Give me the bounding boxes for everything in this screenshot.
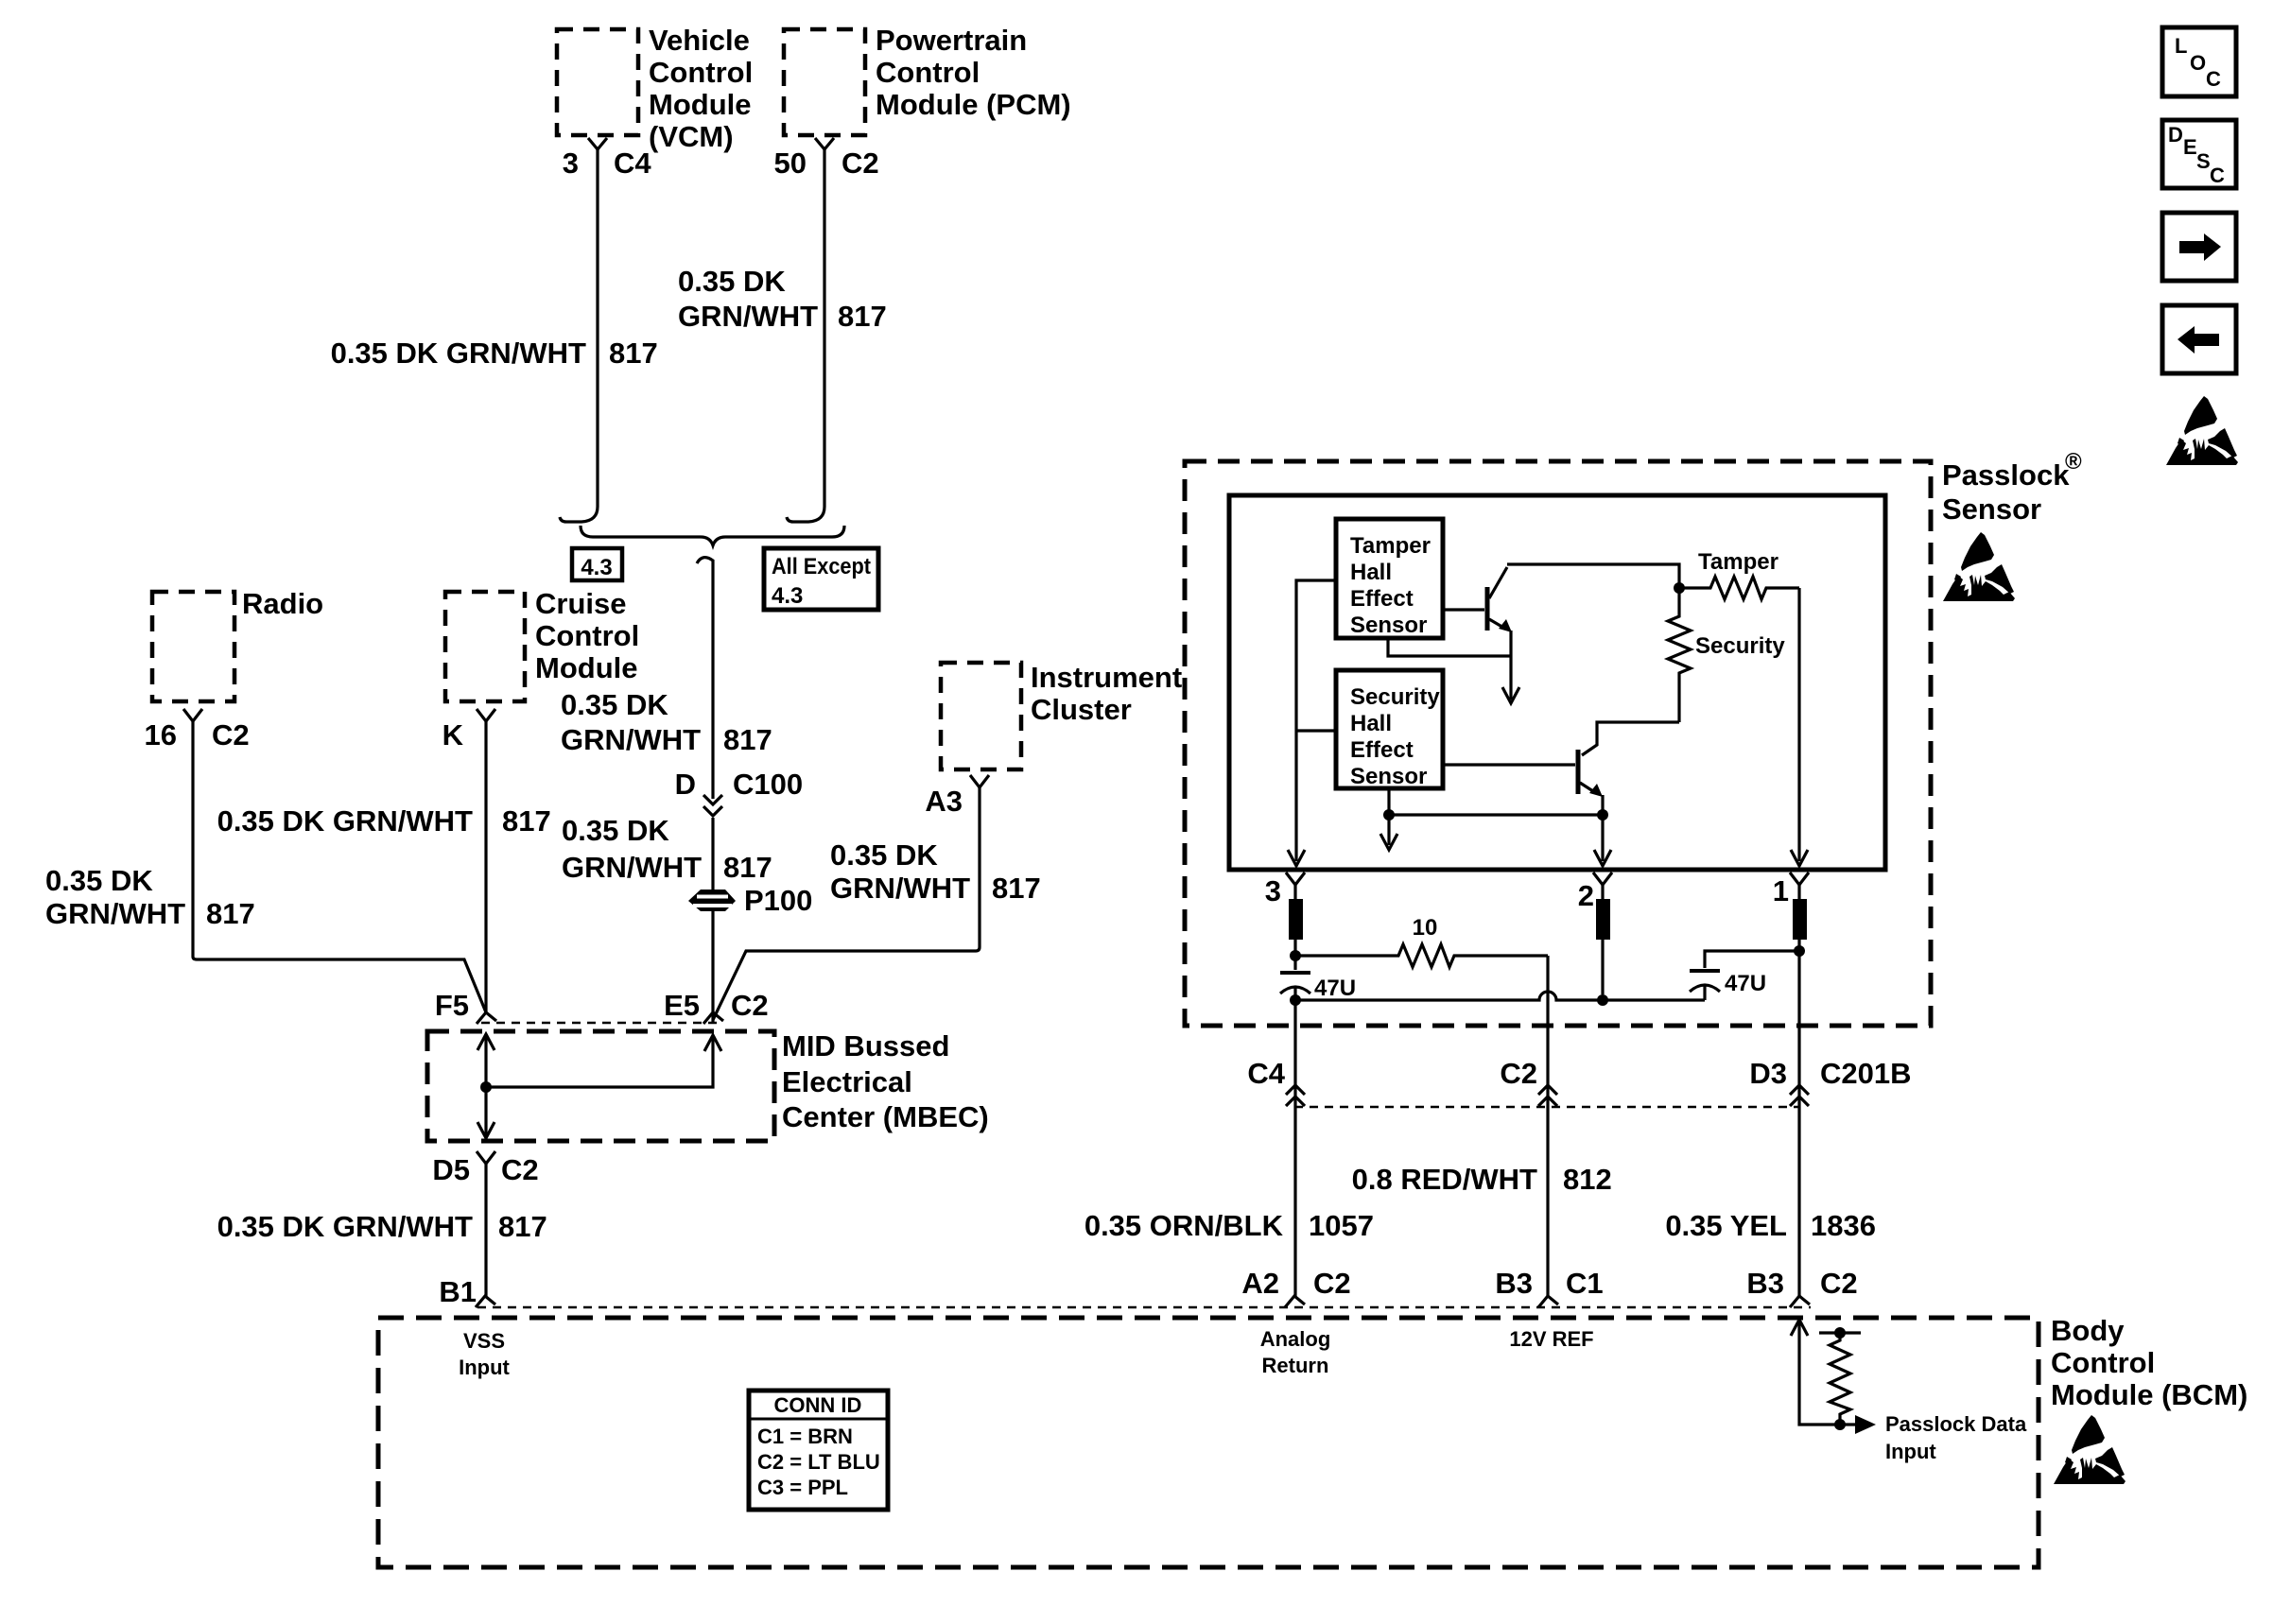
wire Q2 emitter to pin 2 <box>1601 795 1604 861</box>
svg-text:4.3: 4.3 <box>772 583 803 609</box>
icon arrow left <box>2162 305 2236 373</box>
svg-text:C1: C1 <box>1566 1267 1604 1300</box>
svg-text:Electrical: Electrical <box>782 1065 912 1098</box>
splice brace merging VCM and PCM wires <box>581 526 844 545</box>
svg-text:D3: D3 <box>1749 1057 1787 1090</box>
svg-text:C2 = LT BLU: C2 = LT BLU <box>757 1450 880 1474</box>
svg-text:C2: C2 <box>842 147 879 180</box>
wire 817 from PCM pin 50 <box>787 149 824 522</box>
svg-text:Module (BCM): Module (BCM) <box>2051 1378 2247 1411</box>
svg-text:Passlock Data: Passlock Data <box>1885 1412 2027 1436</box>
svg-text:Module: Module <box>649 88 752 121</box>
Body Control Module dashed box <box>378 1318 2039 1567</box>
svg-text:Effect: Effect <box>1350 586 1414 612</box>
wire Security sensor output bus <box>1389 788 1603 815</box>
connector row C201B <box>1294 1106 1799 1109</box>
svg-text:D5: D5 <box>432 1153 470 1186</box>
svg-text:1: 1 <box>1773 874 1789 907</box>
svg-text:Instrument: Instrument <box>1031 661 1182 694</box>
svg-text:817: 817 <box>838 300 887 333</box>
svg-text:C3 = PPL: C3 = PPL <box>757 1476 848 1499</box>
svg-text:F5: F5 <box>435 989 469 1022</box>
svg-text:817: 817 <box>723 723 772 756</box>
svg-text:817: 817 <box>206 897 255 930</box>
CONN ID table <box>749 1391 888 1510</box>
svg-text:Module: Module <box>535 651 638 684</box>
svg-text:3: 3 <box>563 147 579 180</box>
svg-text:Cruise: Cruise <box>535 587 626 620</box>
connector A2 C2 of BCM <box>1285 1296 1305 1307</box>
junction dot tamper node <box>1674 582 1685 594</box>
resistor Tamper <box>1679 577 1799 599</box>
svg-text:GRN/WHT: GRN/WHT <box>561 723 701 756</box>
svg-text:Powertrain: Powertrain <box>876 24 1027 57</box>
svg-text:0.8 RED/WHT: 0.8 RED/WHT <box>1352 1163 1537 1196</box>
block Security Hall Effect Sensor <box>1336 670 1443 788</box>
svg-text:Control: Control <box>2051 1346 2155 1379</box>
wire 817 trunk below brace <box>697 558 713 799</box>
connector E5 C2 of MBEC <box>703 1012 723 1024</box>
svg-text:Input: Input <box>1885 1440 1936 1463</box>
connector pin K of Cruise <box>477 709 495 721</box>
svg-text:C2: C2 <box>501 1153 539 1186</box>
svg-text:A2: A2 <box>1241 1267 1279 1300</box>
svg-text:0.35 DK GRN/WHT: 0.35 DK GRN/WHT <box>331 337 586 370</box>
svg-text:C2: C2 <box>1313 1267 1351 1300</box>
svg-text:C: C <box>2210 164 2225 187</box>
connector D5 C2 of MBEC <box>477 1151 495 1164</box>
connector F5 of MBEC <box>477 1012 496 1024</box>
svg-text:12V REF: 12V REF <box>1509 1327 1593 1351</box>
svg-text:E: E <box>2183 135 2197 159</box>
transistor Q2 <box>1443 763 1575 766</box>
capacitor 47U (left) <box>1293 956 1296 970</box>
svg-text:Effect: Effect <box>1350 737 1414 763</box>
svg-text:C100: C100 <box>733 768 803 801</box>
Passlock inner solid box <box>1229 495 1885 870</box>
svg-text:C2: C2 <box>212 718 250 752</box>
svg-text:B1: B1 <box>439 1275 477 1308</box>
svg-text:K: K <box>442 718 464 752</box>
module box Cruise Control Module <box>445 592 525 701</box>
connector D C100 <box>703 795 722 804</box>
svg-text:1057: 1057 <box>1309 1209 1374 1242</box>
svg-text:50: 50 <box>774 147 807 180</box>
bus wire caps (with hop over 12V REF wire) <box>1295 992 1705 1000</box>
svg-text:All Except: All Except <box>772 554 871 579</box>
connector B3 C1 of BCM <box>1538 1296 1558 1307</box>
svg-text:Center (MBEC): Center (MBEC) <box>782 1100 989 1133</box>
ESD symbol (legend) <box>2166 396 2238 465</box>
BCM harness dotted line <box>477 1306 1811 1309</box>
svg-text:GRN/WHT: GRN/WHT <box>45 897 185 930</box>
svg-text:Tamper: Tamper <box>1698 549 1778 575</box>
svg-text:0.35 DK GRN/WHT: 0.35 DK GRN/WHT <box>217 804 473 838</box>
svg-text:C201B: C201B <box>1820 1057 1912 1090</box>
wire pin1 internal (from Tamper resistor) <box>1797 588 1800 861</box>
svg-text:Input: Input <box>459 1356 510 1379</box>
ESD symbol (BCM) <box>2054 1415 2126 1484</box>
svg-text:Tamper: Tamper <box>1350 533 1431 559</box>
svg-text:B3: B3 <box>1746 1267 1784 1300</box>
svg-text:0.35 YEL: 0.35 YEL <box>1665 1209 1787 1242</box>
svg-text:CONN ID: CONN ID <box>774 1393 862 1417</box>
MBEC internal bus wires <box>477 1034 495 1050</box>
wire Q1 emitter to internal arrow <box>1509 631 1512 700</box>
svg-text:Hall: Hall <box>1350 560 1392 585</box>
svg-text:Module (PCM): Module (PCM) <box>876 88 1071 121</box>
connector B3 C2 of BCM <box>1790 1296 1810 1307</box>
module box Radio <box>152 592 234 701</box>
wire Security resistor to Q2 collector <box>1582 722 1679 755</box>
svg-text:MID Bussed: MID Bussed <box>782 1029 949 1063</box>
svg-text:4.3: 4.3 <box>581 555 612 580</box>
svg-text:1836: 1836 <box>1811 1209 1876 1242</box>
svg-text:Passlock: Passlock <box>1942 458 2070 492</box>
svg-text:L: L <box>2175 34 2187 58</box>
svg-text:GRN/WHT: GRN/WHT <box>830 872 970 905</box>
svg-text:0.35 DK GRN/WHT: 0.35 DK GRN/WHT <box>217 1210 473 1243</box>
svg-text:Sensor: Sensor <box>1350 764 1427 789</box>
wire 12V REF drop (resistor to BCM) <box>1546 956 1549 1296</box>
svg-text:0.35 DK: 0.35 DK <box>45 864 153 897</box>
svg-text:Control: Control <box>649 56 753 89</box>
svg-text:O: O <box>2190 51 2206 75</box>
block Tamper Hall Effect Sensor <box>1336 519 1443 638</box>
svg-text:Return: Return <box>1262 1354 1329 1377</box>
icon LOC <box>2162 27 2236 96</box>
svg-text:16: 16 <box>145 718 177 752</box>
svg-text:10: 10 <box>1413 915 1438 941</box>
wire 817 from Cruise K to F5 <box>484 721 487 1012</box>
tag 4.3 <box>572 548 622 580</box>
svg-text:Analog: Analog <box>1260 1327 1331 1351</box>
connector B1 of BCM <box>476 1296 495 1307</box>
svg-text:VSS: VSS <box>463 1329 505 1353</box>
svg-text:Control: Control <box>876 56 980 89</box>
module box Instrument Cluster <box>941 663 1021 769</box>
svg-text:A3: A3 <box>925 785 963 818</box>
svg-text:P100: P100 <box>744 884 812 917</box>
connector pin 1 <box>1790 872 1809 885</box>
svg-text:3: 3 <box>1265 874 1281 907</box>
svg-text:Control: Control <box>535 619 639 652</box>
svg-text:Sensor: Sensor <box>1350 613 1427 638</box>
svg-text:2: 2 <box>1578 879 1594 912</box>
svg-text:C2: C2 <box>731 989 769 1022</box>
svg-text:Cluster: Cluster <box>1031 693 1132 726</box>
icon DESC <box>2162 120 2236 188</box>
svg-text:817: 817 <box>502 804 551 838</box>
tag All Except 4.3 <box>764 548 878 610</box>
Passlock Sensor dashed box <box>1185 461 1931 1026</box>
wire 817 MBEC to BCM B1 <box>484 1164 487 1296</box>
svg-text:GRN/WHT: GRN/WHT <box>678 300 818 333</box>
svg-text:Security: Security <box>1350 684 1440 710</box>
wire 817 from Instrument Cluster to E5 <box>713 787 980 1020</box>
harness dotted line F5-E5 <box>481 1022 719 1025</box>
svg-text:Sensor: Sensor <box>1942 492 2041 526</box>
MBEC dashed box <box>427 1031 774 1141</box>
transistor Q1 <box>1443 608 1484 611</box>
module box PCM <box>784 29 865 135</box>
svg-text:0.35 ORN/BLK: 0.35 ORN/BLK <box>1084 1209 1284 1242</box>
svg-text:E5: E5 <box>664 989 700 1022</box>
svg-text:C: C <box>2206 67 2221 91</box>
top rail Q1 collector <box>1507 564 1679 584</box>
svg-text:817: 817 <box>609 337 658 370</box>
connector pin 3 <box>1286 872 1305 885</box>
svg-text:817: 817 <box>723 851 772 884</box>
svg-text:817: 817 <box>498 1210 547 1243</box>
svg-text:C2: C2 <box>1820 1267 1858 1300</box>
svg-text:0.35 DK: 0.35 DK <box>561 688 668 721</box>
svg-text:Body: Body <box>2051 1314 2125 1347</box>
svg-text:Radio: Radio <box>242 587 323 620</box>
wire Tamper sensor output <box>1388 638 1511 656</box>
wire 817 from VCM pin 3 <box>560 149 598 522</box>
resistor 10 <box>1290 950 1301 961</box>
BCM passlock data input circuit <box>1791 1320 1808 1336</box>
svg-text:812: 812 <box>1563 1163 1612 1196</box>
svg-text:S: S <box>2196 149 2211 173</box>
svg-text:(VCM): (VCM) <box>649 120 734 153</box>
svg-text:GRN/WHT: GRN/WHT <box>562 851 702 884</box>
svg-text:Security: Security <box>1695 633 1785 659</box>
splice P100 <box>688 890 736 911</box>
svg-text:0.35 DK: 0.35 DK <box>830 838 938 872</box>
wire pin3 internal (hall sensor supply) <box>1296 580 1336 861</box>
connector pin 2 <box>1593 872 1612 885</box>
svg-text:47U: 47U <box>1725 971 1766 996</box>
wire 817 from Radio <box>193 721 486 1012</box>
resistor Security <box>1668 588 1691 722</box>
svg-text:47U: 47U <box>1314 976 1356 1001</box>
svg-text:D: D <box>2168 123 2183 147</box>
svg-text:B3: B3 <box>1495 1267 1533 1300</box>
svg-text:0.35 DK: 0.35 DK <box>562 814 669 847</box>
icon arrow right <box>2162 213 2236 281</box>
module box VCM <box>557 29 638 135</box>
connector pin 3 C4 of VCM <box>588 138 607 149</box>
capacitor 47U (right) <box>1794 945 1805 957</box>
svg-text:Vehicle: Vehicle <box>649 24 750 57</box>
wire 817 below C100 <box>711 818 714 1023</box>
connector pin 16 C2 of Radio <box>183 709 202 721</box>
svg-text:®: ® <box>2065 449 2082 475</box>
junction dot pin3/cap <box>1290 994 1301 1006</box>
svg-text:0.35 DK: 0.35 DK <box>678 265 786 298</box>
connector pin A3 of Instrument Cluster <box>970 775 989 787</box>
wire pin3 continues to BCM <box>1293 1000 1296 1296</box>
svg-text:Hall: Hall <box>1350 711 1392 736</box>
ESD symbol (Passlock) <box>1943 532 2015 601</box>
svg-text:D: D <box>675 768 696 801</box>
svg-text:C4: C4 <box>614 147 651 180</box>
svg-text:C4: C4 <box>1247 1057 1285 1090</box>
svg-text:817: 817 <box>992 872 1041 905</box>
connector pin 50 C2 of PCM <box>815 138 834 149</box>
svg-text:C2: C2 <box>1500 1057 1537 1090</box>
svg-text:C1 = BRN: C1 = BRN <box>757 1425 853 1448</box>
